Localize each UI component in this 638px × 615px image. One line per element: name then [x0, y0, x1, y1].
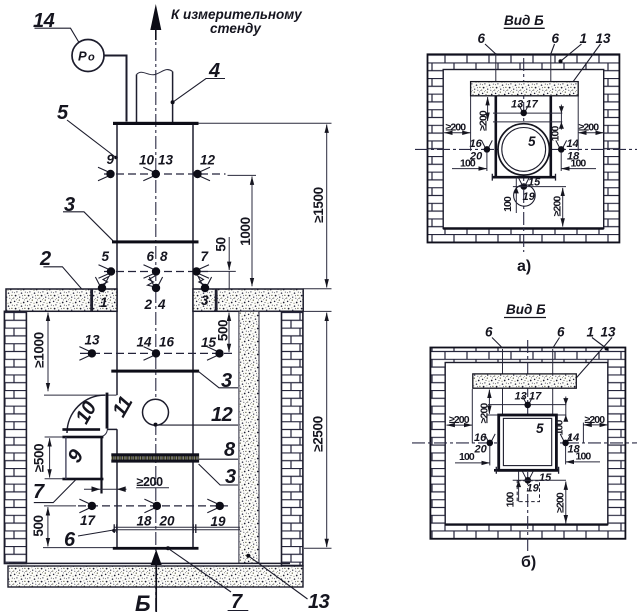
bottom dims	[513, 479, 566, 481]
svg-text:100: 100	[502, 196, 514, 212]
elbow top ext	[44, 394, 117, 396]
bottom flange 6	[114, 526, 241, 528]
arrow to measuring stand	[150, 4, 161, 30]
svg-text:≥200: ≥200	[137, 475, 164, 489]
svg-text:≥200: ≥200	[552, 196, 564, 217]
svg-text:1: 1	[100, 295, 108, 310]
row4 dots 17 18 20 19	[79, 499, 96, 513]
svg-text:10: 10	[139, 153, 155, 168]
svg-text:14: 14	[567, 432, 579, 444]
svg-text:7: 7	[231, 591, 243, 613]
circle 12	[143, 399, 169, 425]
duct top flange	[113, 122, 199, 125]
svg-text:≥500: ≥500	[32, 444, 47, 472]
svg-text:15: 15	[201, 335, 217, 350]
pipe 4 with break	[137, 72, 173, 123]
row1 dots 9 10 13 12	[98, 167, 115, 181]
svg-text:1000: 1000	[238, 217, 253, 245]
svg-text:Вид Б: Вид Б	[504, 13, 544, 28]
svg-text:19: 19	[211, 514, 227, 529]
svg-text:5: 5	[102, 249, 110, 264]
impulse tube	[104, 56, 127, 122]
svg-text:5: 5	[528, 134, 536, 149]
top ext	[487, 414, 566, 416]
svg-text:20: 20	[159, 514, 176, 529]
svg-text:3: 3	[201, 293, 209, 308]
right gap column	[259, 311, 282, 563]
svg-text:5: 5	[536, 421, 544, 436]
dim >=1500	[326, 125, 328, 288]
svg-text:≥200: ≥200	[579, 122, 600, 134]
concrete strip	[471, 82, 579, 96]
centerline main axis	[155, 26, 157, 612]
right vertical dim 100	[565, 397, 567, 422]
arrow Б	[151, 550, 162, 566]
duct walls	[117, 125, 193, 548]
measurement dots	[518, 104, 529, 116]
left vertical dim >=200	[488, 390, 490, 414]
zigzags to floor dots	[102, 276, 111, 285]
bottom dims	[513, 186, 566, 188]
svg-text:2: 2	[144, 297, 153, 312]
svg-text:12: 12	[211, 404, 233, 426]
VIEW B	[412, 302, 637, 571]
joint line 3	[112, 240, 199, 243]
svg-text:Вид Б: Вид Б	[506, 302, 546, 317]
row1 dashed	[104, 173, 226, 175]
svg-text:9: 9	[107, 152, 115, 167]
left vertical dim >=200	[487, 97, 489, 121]
svg-text:≥1500: ≥1500	[311, 187, 326, 222]
svg-text:100: 100	[571, 158, 587, 170]
thin verticals above strip	[495, 53, 497, 82]
svg-text:≥200: ≥200	[478, 110, 490, 131]
svg-text:≥2500: ≥2500	[311, 416, 326, 451]
row3 dashed	[80, 352, 234, 354]
duct guide thick verticals 6	[494, 96, 497, 177]
concrete strip	[473, 374, 577, 388]
duct bottom thick	[113, 547, 199, 550]
row4 dashed	[78, 505, 228, 507]
svg-text:18: 18	[137, 514, 153, 529]
svg-text:4: 4	[157, 297, 166, 312]
svg-text:14: 14	[137, 335, 153, 350]
svg-text:7: 7	[33, 481, 45, 503]
svg-text:≥200: ≥200	[449, 414, 470, 426]
row2 dots 5 6 8 7	[99, 265, 116, 279]
svg-text:стенду: стенду	[210, 21, 262, 36]
thick line 3 mid	[111, 370, 199, 373]
svg-text:8: 8	[160, 249, 168, 264]
svg-text:≥1000: ≥1000	[32, 332, 47, 367]
svg-text:1: 1	[580, 31, 588, 46]
svg-text:≥200: ≥200	[555, 492, 567, 513]
horizontals	[493, 112, 562, 114]
right stipple column wall 13	[239, 311, 259, 563]
svg-text:13: 13	[308, 591, 330, 613]
svg-text:100: 100	[505, 492, 517, 508]
measurement dots	[522, 396, 533, 408]
dim 50	[228, 237, 230, 270]
dim 500 lower left	[43, 547, 113, 549]
svg-text:3: 3	[221, 370, 232, 392]
bottom flange	[494, 469, 559, 472]
row2 dashed	[104, 271, 212, 273]
svg-text:1: 1	[587, 325, 595, 340]
svg-text:б): б)	[521, 554, 536, 571]
svg-text:19: 19	[527, 483, 540, 495]
svg-text:15: 15	[539, 472, 552, 484]
svg-text:13: 13	[515, 391, 527, 403]
svg-text:Р: Р	[78, 49, 87, 64]
label 13 bottom	[248, 556, 307, 599]
svg-text:20: 20	[474, 444, 488, 456]
wall frame with bricks	[430, 348, 625, 539]
svg-text:100: 100	[459, 451, 475, 463]
svg-text:о: о	[88, 52, 95, 64]
svg-text:6: 6	[478, 31, 486, 46]
extension to dim	[199, 122, 332, 124]
verticals 6	[502, 349, 504, 415]
grating 8	[111, 456, 199, 460]
MAIN VIEW	[4, 4, 331, 615]
svg-text:13: 13	[511, 99, 523, 111]
svg-text:100: 100	[576, 451, 592, 463]
svg-text:12: 12	[200, 153, 216, 168]
dim >=2500	[304, 288, 332, 290]
pipe section circle 5	[498, 124, 549, 175]
svg-text:13: 13	[85, 333, 101, 348]
svg-text:100: 100	[460, 158, 476, 170]
centerlines	[415, 148, 637, 150]
svg-text:500: 500	[31, 515, 46, 536]
right brick column	[282, 311, 303, 565]
box 9	[62, 428, 100, 431]
left wall bricks	[4, 311, 26, 563]
floor slabs	[6, 289, 303, 311]
flange bottom	[492, 176, 556, 179]
svg-text:3: 3	[64, 194, 75, 216]
svg-text:13: 13	[158, 153, 174, 168]
svg-text:6: 6	[147, 249, 155, 264]
svg-text:16: 16	[159, 335, 175, 350]
right vertical dim 100	[560, 105, 562, 130]
svg-text:≥200: ≥200	[479, 403, 491, 424]
svg-text:Б: Б	[135, 591, 151, 615]
row3 dots 13 14 16 15	[79, 347, 96, 361]
svg-text:К измерительному: К измерительному	[171, 7, 303, 22]
centerlines	[412, 442, 637, 444]
svg-text:13: 13	[596, 31, 612, 46]
pit floor	[9, 562, 290, 564]
svg-text:6: 6	[485, 325, 493, 340]
svg-text:100: 100	[550, 126, 562, 142]
svg-text:а): а)	[517, 258, 531, 275]
svg-text:≥200: ≥200	[446, 122, 467, 134]
floor dots 1 2-4 3	[95, 277, 108, 292]
line through dot	[488, 404, 566, 406]
svg-text:8: 8	[224, 439, 236, 461]
dim 500 right	[228, 313, 230, 353]
svg-text:100: 100	[554, 420, 566, 436]
svg-text:≥200: ≥200	[585, 414, 606, 426]
svg-text:50: 50	[214, 237, 229, 251]
elbow 10	[67, 395, 105, 433]
square duct 5	[499, 415, 557, 470]
svg-text:6: 6	[557, 325, 565, 340]
svg-text:17: 17	[80, 513, 97, 528]
svg-text:16: 16	[470, 138, 483, 150]
dim 1000	[251, 177, 253, 287]
svg-text:13: 13	[601, 325, 617, 340]
svg-text:6: 6	[552, 31, 560, 46]
label 7 bottom	[168, 548, 231, 592]
svg-text:17: 17	[526, 99, 539, 111]
VIEW A	[415, 13, 637, 275]
svg-text:500: 500	[216, 320, 231, 341]
svg-text:16: 16	[474, 432, 487, 444]
wall frame with bricks	[428, 54, 620, 242]
svg-text:14: 14	[567, 138, 579, 150]
svg-text:6: 6	[64, 529, 76, 551]
dim >=1000	[47, 313, 49, 392]
gauge Po	[72, 40, 104, 72]
svg-text:17: 17	[529, 391, 542, 403]
dim >=500 left	[45, 436, 63, 438]
